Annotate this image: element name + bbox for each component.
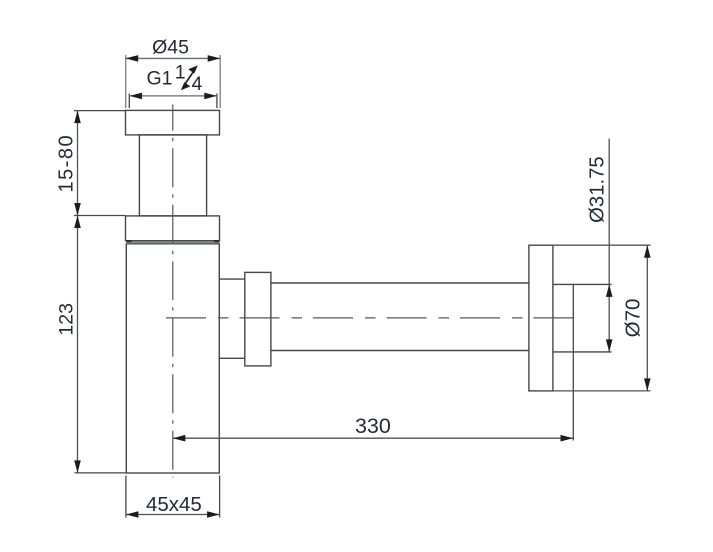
outlet stub bottom edge <box>219 357 246 359</box>
fraction slash arrow <box>184 70 195 86</box>
wall flange <box>529 245 553 391</box>
seam line grey <box>126 241 219 242</box>
vertical centerline <box>172 105 174 478</box>
dimension Ø70 <box>553 245 651 391</box>
bottle body <box>126 244 219 473</box>
dimension Ø45 <box>126 55 221 108</box>
svg-text:4: 4 <box>192 73 203 95</box>
dimension Ø31.75 <box>608 139 610 352</box>
outlet stub top edge <box>219 278 246 280</box>
svg-text:330: 330 <box>355 414 391 438</box>
riser tube <box>139 135 206 216</box>
svg-text:15-80: 15-80 <box>56 134 78 193</box>
svg-text:Ø31.75: Ø31.75 <box>587 156 609 223</box>
dimension 15-80 <box>74 111 125 216</box>
top flange nut <box>126 110 220 134</box>
svg-text:Ø45: Ø45 <box>152 37 189 59</box>
compression nut upper <box>126 216 220 241</box>
pipe nut <box>245 272 271 366</box>
dimension G1 1/4 <box>129 94 217 109</box>
dimension 330 <box>173 284 574 440</box>
horizontal centerline <box>164 317 581 319</box>
svg-text:1: 1 <box>175 61 186 83</box>
svg-text:Ø70: Ø70 <box>622 299 645 338</box>
svg-text:123: 123 <box>56 303 78 336</box>
dimension 45x45 <box>126 476 220 518</box>
svg-text:45x45: 45x45 <box>146 493 202 516</box>
horizontal pipe bottom edge <box>271 350 529 352</box>
outlet pipe top edge <box>553 283 612 285</box>
outlet pipe bottom edge <box>553 351 612 353</box>
svg-text:G1: G1 <box>147 68 173 90</box>
horizontal pipe top edge <box>271 282 529 284</box>
dimension 123 <box>75 216 126 473</box>
